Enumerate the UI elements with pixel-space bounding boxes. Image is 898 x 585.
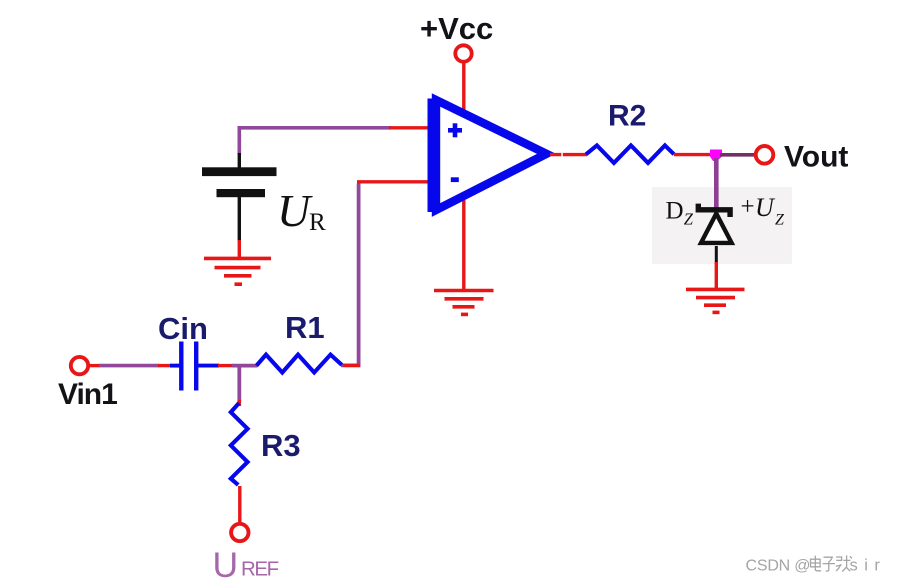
terminal Uref	[231, 524, 248, 541]
op-amp U1	[428, 99, 547, 213]
resistor R1	[257, 355, 342, 373]
ground (zener)	[686, 289, 745, 312]
svg-text:CSDN @: CSDN @	[746, 558, 811, 575]
wire - input (red)	[357, 180, 429, 183]
battery B1 (U_R)	[202, 153, 277, 241]
svg-text:sir: sir	[850, 557, 887, 575]
terminal Vcc	[455, 45, 471, 61]
svg-text:D: D	[666, 197, 684, 224]
terminal Vin1	[71, 357, 88, 374]
wire R3 to Uref terminal	[238, 486, 241, 524]
svg-text:REF: REF	[241, 558, 279, 581]
svg-text:Z: Z	[684, 210, 694, 229]
terminal Vout	[756, 146, 774, 164]
wire zener to ground	[715, 262, 718, 290]
resistor R2	[586, 145, 674, 163]
wire Cin to node	[218, 364, 233, 367]
wire battery top to + input (purple)	[239, 128, 391, 155]
wire + input (red)	[389, 126, 429, 129]
svg-text:Vout: Vout	[784, 141, 848, 174]
svg-text:R1: R1	[285, 310, 325, 345]
node junction (purple tee)	[232, 364, 258, 368]
wire op-amp output	[550, 153, 587, 156]
svg-text:Cin: Cin	[158, 311, 208, 346]
svg-text:R3: R3	[261, 428, 301, 463]
svg-text:+: +	[741, 194, 755, 221]
svg-text:U: U	[277, 185, 313, 236]
pin +	[448, 123, 462, 137]
wire op-amp pin to ground	[462, 196, 465, 291]
pin -	[451, 177, 459, 182]
svg-text:U: U	[213, 545, 239, 585]
svg-text:Z: Z	[775, 212, 785, 229]
svg-text:+Vcc: +Vcc	[420, 11, 493, 46]
watermark chinese glyph dian	[811, 555, 853, 571]
watermark chinese glyph zhang	[836, 555, 852, 571]
wire R1 to - input vertical	[343, 364, 360, 367]
wire battery to ground	[238, 240, 241, 259]
ground (op-amp)	[434, 291, 494, 315]
svg-text:R2: R2	[608, 100, 646, 133]
wire Vcc to op-amp	[462, 62, 465, 115]
svg-text:U: U	[755, 193, 776, 222]
svg-text:R: R	[309, 209, 326, 236]
resistor R3	[238, 400, 241, 406]
zener diode D_Z	[698, 204, 731, 263]
wire node to zener (purple)	[714, 158, 719, 211]
watermark chinese glyph zi	[823, 557, 835, 571]
wire Vin1 to Cin	[88, 364, 100, 367]
wire node to Vout (dark purple)	[720, 153, 754, 157]
wire R2 to node	[674, 153, 712, 156]
ground (battery)	[204, 258, 271, 284]
light background panel behind zener	[652, 187, 792, 264]
capacitor Cin	[170, 342, 219, 391]
wire - input vertical (purple)	[341, 184, 359, 366]
svg-text:Vin1: Vin1	[58, 378, 117, 411]
node junction (magenta)	[710, 150, 722, 162]
